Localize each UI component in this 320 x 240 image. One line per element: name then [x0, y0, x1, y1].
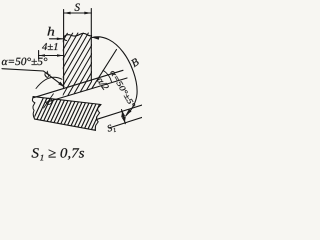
- big protractor arc: [92, 37, 137, 116]
- upper sheet hatching: [30, 33, 120, 98]
- label alpha left: [43, 71, 51, 79]
- S1 extension line M2: [109, 117, 142, 128]
- phi glyph circle: [46, 98, 52, 104]
- phi glyph stroke: [44, 94, 54, 108]
- dimension S arrowheads: [64, 12, 71, 15]
- label alpha=50°±5°: [2, 58, 47, 65]
- h leader arrow: [50, 38, 63, 40]
- S1 dim segment: [122, 110, 126, 124]
- left angle arc: [36, 77, 62, 88]
- lower sheet band hatching: [19, 90, 128, 150]
- upper sheet left edge: [63, 10, 65, 89]
- big arc bottom arrowhead: [126, 109, 132, 116]
- label alpha/2: [97, 76, 110, 90]
- radial label alpha=50°±5°: [110, 70, 136, 109]
- dimension S line: [64, 12, 92, 14]
- bottom formula: [32, 148, 84, 160]
- upper sheet wavy break top: [64, 33, 92, 40]
- lower sheet top edge: [33, 97, 101, 105]
- L1b sheet surface extension line: [47, 78, 127, 102]
- label S: [75, 4, 80, 11]
- dimension 4±1 extension: [38, 51, 40, 60]
- leader polyline with arrow: [2, 69, 64, 87]
- label S1 strip: [107, 124, 116, 134]
- big arc top arrowhead: [92, 36, 100, 40]
- ray A: [92, 50, 117, 89]
- lower sheet left wavy edge: [32, 97, 35, 120]
- L1 bevel line through sheet extended (ray B): [34, 70, 124, 97]
- lower sheet right wavy edge: [95, 105, 101, 131]
- small arc at fan: [103, 70, 112, 81]
- S1 extension line M: [97, 105, 142, 119]
- label B: [130, 58, 139, 68]
- lower sheet bottom edge: [35, 119, 96, 130]
- upper sheet right edge: [90, 9, 92, 81]
- dimension 4±1 line: [39, 55, 64, 57]
- label h: [48, 27, 55, 36]
- dimension 4±1 text: [42, 43, 57, 50]
